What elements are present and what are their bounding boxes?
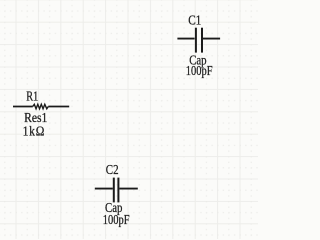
capacitor C2 (95, 178, 138, 203)
plate 1 (113, 178, 115, 203)
pin 1 wire (left) (95, 188, 113, 190)
svg-text:R1: R1 (26, 89, 38, 104)
resistor R1 (13, 104, 69, 109)
svg-text:1kΩ: 1kΩ (23, 123, 46, 138)
zigzag body (33, 104, 49, 109)
pin 2 wire (right) (203, 38, 220, 40)
plate 2 (117, 178, 119, 203)
svg-text:100pF: 100pF (186, 63, 213, 78)
pin 1 wire (left) (177, 38, 194, 40)
svg-text:C2: C2 (106, 162, 119, 177)
svg-text:C1: C1 (188, 12, 201, 27)
plate 2 (201, 28, 203, 53)
pin 2 wire (right) (48, 106, 69, 108)
pin 1 wire (left) (13, 106, 33, 108)
plate 1 (195, 28, 197, 53)
svg-text:100pF: 100pF (103, 212, 130, 227)
pin 2 wire (right) (119, 188, 137, 190)
capacitor C1 (177, 28, 220, 53)
